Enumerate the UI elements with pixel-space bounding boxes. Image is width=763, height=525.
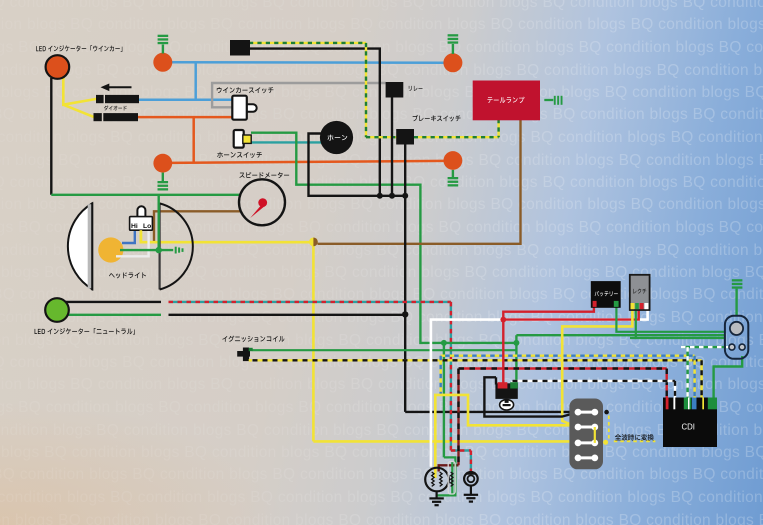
junction dots on black bus xyxy=(377,193,409,318)
full-wave annotation xyxy=(603,410,655,445)
label: rectifier xyxy=(633,289,646,294)
ignition coil xyxy=(237,348,253,362)
battery xyxy=(591,281,621,308)
magneto ground xyxy=(429,491,443,505)
wire: relay output black xyxy=(391,97,393,196)
front brake switch box xyxy=(230,40,250,56)
turn signal bulb D xyxy=(444,151,463,170)
label: LED indicator winker xyxy=(36,45,122,52)
wire: magneto yellow lighting xyxy=(435,395,577,478)
CDI xyxy=(663,398,717,448)
wire: ignition coil yellow/black dashed to CDI xyxy=(253,360,702,398)
ground A xyxy=(158,35,169,54)
label: ignition coil xyxy=(222,336,284,342)
yellow/brown bullet connector xyxy=(309,238,318,247)
wire: horn switch to horn (teal) xyxy=(251,141,321,143)
headlight bulb xyxy=(98,237,123,262)
wire: magneto green ground loop xyxy=(437,457,456,495)
wire: neutral LED green + black continuation xyxy=(66,314,405,316)
label: relay xyxy=(409,86,423,91)
wire: headlight brown to speedometer xyxy=(154,211,241,241)
wire: horn to ground bus (black) xyxy=(309,134,406,196)
wire: main switch green net xyxy=(441,335,725,457)
wire: green/white dashed kill to CDI pin3 xyxy=(681,347,730,398)
wire: yellow main down from junction xyxy=(313,245,576,443)
wire: right turn signal (orange) xyxy=(138,117,444,163)
relay xyxy=(386,82,404,98)
turn signal bulb B xyxy=(443,53,462,72)
wire: exciter red/black dashed to CDI + magneto xyxy=(439,369,667,472)
wire: neutral LED black + dashed red/teal xyxy=(66,301,161,303)
turn signal bulb A xyxy=(153,53,172,72)
tail lamp ground (green bars right) xyxy=(544,96,562,105)
label: horn switch xyxy=(217,152,262,158)
wire: brake switch black down xyxy=(404,144,406,412)
wire: rectifier yellow to connector xyxy=(562,310,632,427)
wire: red battery/rectifier/key xyxy=(500,307,638,385)
magneto flywheel xyxy=(425,468,449,492)
label: winker switch xyxy=(217,87,274,93)
ground B xyxy=(448,34,459,54)
wire: white from rectifier to magneto xyxy=(431,310,648,467)
label: tail lamp xyxy=(487,97,524,103)
wire: rectifier green xyxy=(630,310,725,339)
wire: key switch white/black dashed to CDI xyxy=(513,381,676,398)
wire: winker switch feed (gray) from relay xyxy=(212,83,386,107)
wire: headlight ground bus (green) xyxy=(51,194,240,196)
label: diode xyxy=(104,105,127,110)
speedometer xyxy=(239,179,285,225)
brake switch xyxy=(396,129,414,145)
wire: black to connector pin1 xyxy=(405,411,578,413)
wire: ignition coil green xyxy=(253,349,517,351)
main key switch xyxy=(495,382,517,410)
rectifier xyxy=(630,275,650,310)
bulb wires: blue Hi, white, green ground xyxy=(116,195,184,256)
wire: headlight Lo yellow xyxy=(141,229,310,242)
pickup ground xyxy=(464,486,478,502)
label: brake switch xyxy=(413,115,461,122)
label: battery xyxy=(595,291,618,296)
label: headlight xyxy=(109,272,146,278)
ground C xyxy=(158,173,169,191)
turn signal bulb C xyxy=(153,154,172,173)
wire: tail lamp brown xyxy=(318,120,521,244)
wire: battery green xyxy=(616,307,724,332)
label: LED indicator neutral xyxy=(35,328,135,335)
wire: top black from front box xyxy=(249,49,380,196)
label: horn xyxy=(327,135,347,141)
wire: winker LED cathode (black) xyxy=(50,78,52,195)
pickup coil xyxy=(464,472,478,486)
label: speedometer xyxy=(239,172,289,178)
wire: left turn signal (blue) xyxy=(139,62,444,100)
current direction arrow xyxy=(101,84,132,92)
svg-text:Hi: Hi xyxy=(131,223,138,230)
diode D2 xyxy=(94,113,139,121)
kill switch (handlebar) xyxy=(725,316,748,359)
tail lamp xyxy=(473,81,540,121)
headlight lens (right D) xyxy=(160,203,193,289)
label: full-wave conversion xyxy=(615,434,654,440)
wire: blue/yellow dashed to CDI xyxy=(441,356,695,398)
diode D1 xyxy=(96,95,139,103)
horn switch xyxy=(234,130,252,148)
wire: horn switch green to main switch xyxy=(251,133,445,343)
wire: kill switch green to CDI pin6 xyxy=(714,356,743,398)
wire: key switch black to connector xyxy=(484,377,577,416)
winker switch xyxy=(232,96,256,120)
wire: brake light yellow/green dashed xyxy=(249,43,499,137)
horn xyxy=(320,121,353,154)
headlight reflector (left crescent) xyxy=(68,203,92,291)
Hi/Lo dimmer switch xyxy=(130,206,153,242)
exciter coil bobbin xyxy=(448,462,455,495)
LED indicator neutral xyxy=(45,298,69,322)
wire: winker LED anode (yellow) to diodes xyxy=(63,77,96,117)
LED indicator winker xyxy=(46,55,70,79)
svg-text:Lo: Lo xyxy=(143,223,151,230)
wire: kill switch top green + ground xyxy=(735,289,737,317)
ground D xyxy=(448,170,459,187)
svg-text:CDI: CDI xyxy=(682,423,695,432)
full-wave connector xyxy=(569,399,603,470)
